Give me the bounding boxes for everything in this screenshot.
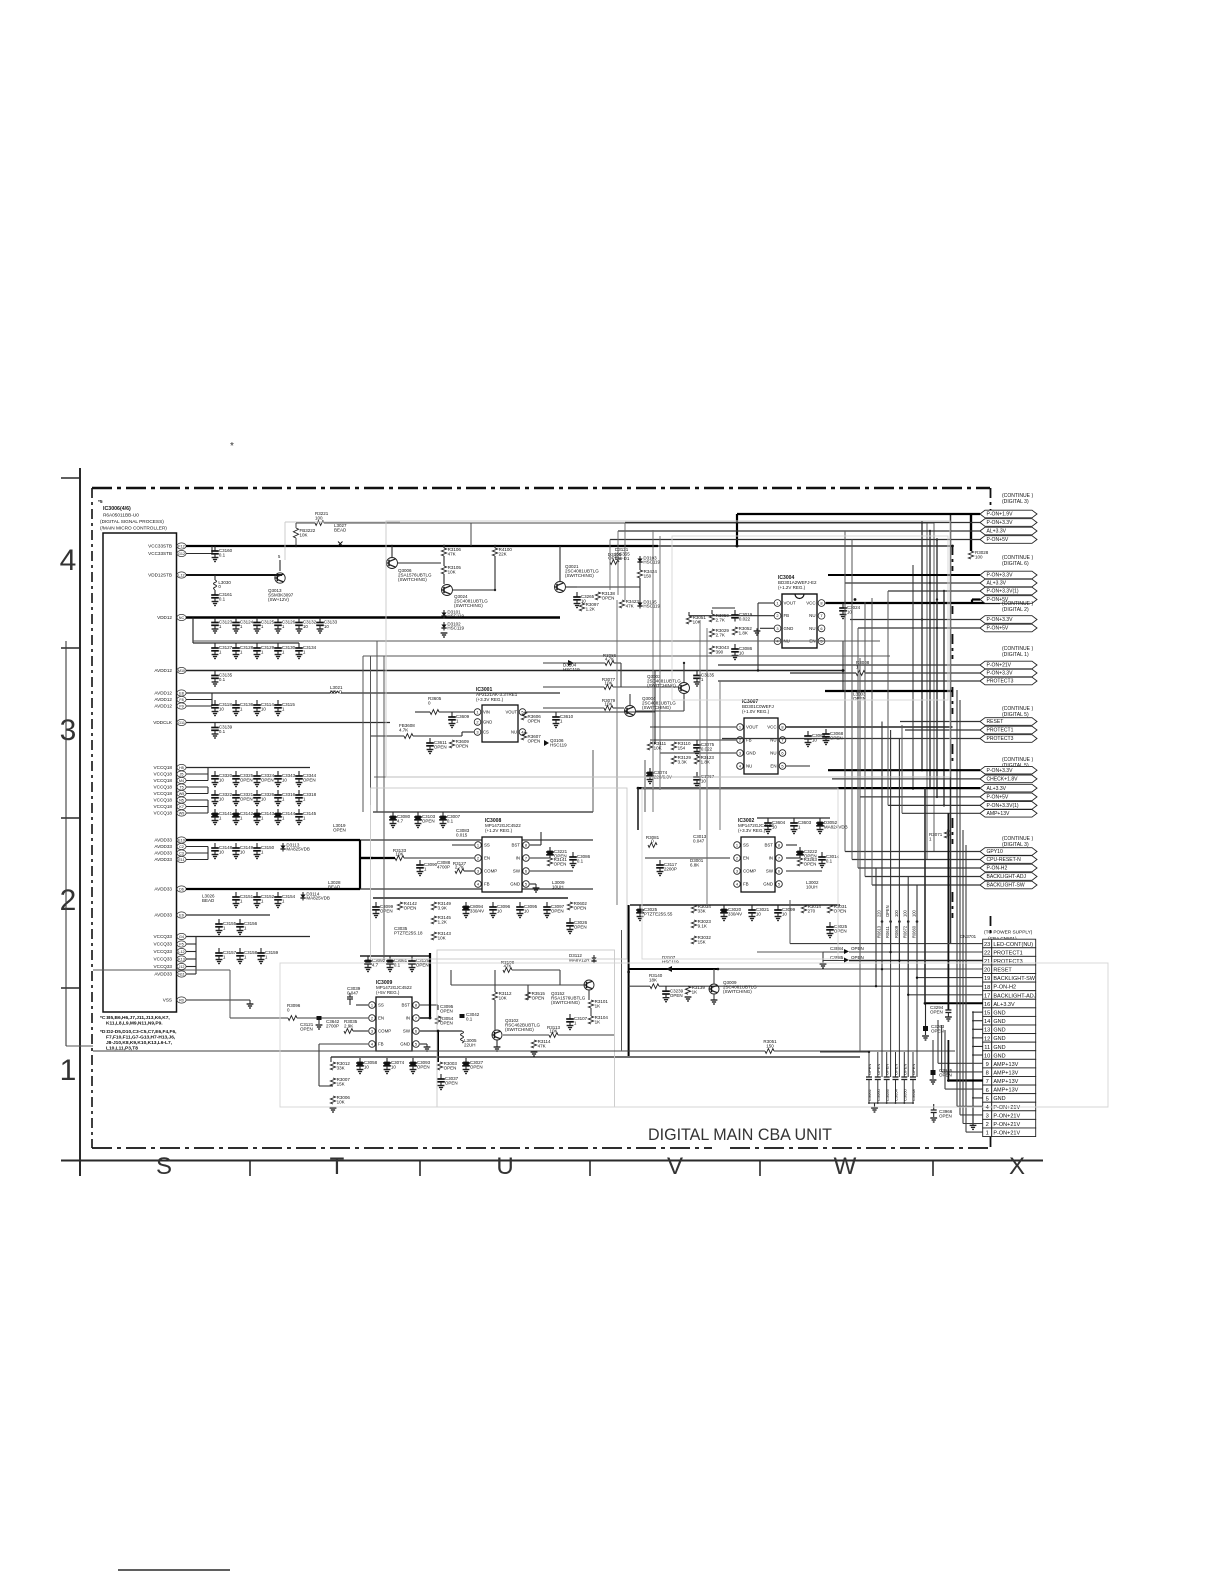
IC3009 bottom parts	[330, 1062, 335, 1070]
svg-text:9.1K: 9.1K	[698, 924, 707, 929]
svg-text:6: 6	[986, 1088, 989, 1094]
capacitor C3107b	[569, 1014, 571, 1019]
node junction dots on buses	[637, 787, 640, 790]
wire vertical resistor bank lines	[881, 921, 883, 1077]
svg-text:1: 1	[60, 1054, 77, 1087]
svg-text:OPEN: OPEN	[554, 862, 567, 867]
svg-text:P-ON+21V: P-ON+21V	[993, 1105, 1020, 1111]
connector CN3701 pin 23 LED-CONT(NU)	[983, 939, 992, 948]
svg-text:C3984: C3984	[830, 946, 844, 951]
svg-text:W5: W5	[179, 792, 185, 796]
svg-text:10: 10	[524, 909, 530, 914]
diode D3103	[639, 556, 641, 559]
footer line bottom left	[118, 1569, 230, 1571]
svg-text:VCCQ33: VCCQ33	[154, 957, 173, 962]
svg-text:K7: K7	[179, 805, 184, 809]
wire ic3009 out rail	[331, 1056, 860, 1058]
svg-text:OPEN: OPEN	[303, 778, 316, 783]
capacitor C3149	[235, 843, 237, 848]
svg-text:P-ON+3.3V: P-ON+3.3V	[987, 573, 1014, 579]
light box inner top	[672, 536, 948, 700]
svg-text:OPEN: OPEN	[670, 993, 683, 998]
svg-text:GND: GND	[993, 1019, 1005, 1025]
svg-text:OPEN: OPEN	[300, 1027, 313, 1032]
connector CN3701 pin 21 PROTECT3	[983, 956, 992, 965]
connector CN3701 pin 2 P-ON+21V	[983, 1119, 992, 1128]
svg-text:C3056: C3056	[885, 1088, 890, 1101]
svg-text:CHECK+1.8V: CHECK+1.8V	[987, 777, 1019, 783]
capacitor C3019	[734, 610, 736, 615]
svg-text:0.047: 0.047	[693, 839, 705, 844]
svg-text:0.1: 0.1	[219, 677, 226, 682]
svg-text:P-ON-H2: P-ON-H2	[987, 866, 1008, 872]
svg-text:GND: GND	[993, 1096, 1005, 1102]
wire ic3008 out rail	[373, 897, 568, 899]
capacitor C3324	[256, 771, 258, 776]
capacitor C3609	[451, 712, 453, 717]
resistor R3609	[449, 740, 454, 748]
svg-text:P-ON+3.3V: P-ON+3.3V	[987, 671, 1014, 677]
connector CN3701 pin 12 GND	[983, 1034, 992, 1043]
svg-text:13: 13	[984, 1028, 990, 1034]
svg-text:VIN: VIN	[483, 710, 490, 715]
resistor R3106	[441, 548, 446, 556]
svg-text:AVDD33: AVDD33	[154, 851, 172, 856]
wire VCC thick out	[826, 602, 1001, 604]
capacitor C3117	[659, 860, 661, 865]
svg-text:F12: F12	[178, 544, 184, 548]
svg-text:BST: BST	[511, 843, 520, 848]
svg-text:10: 10	[219, 778, 225, 783]
svg-text:7: 7	[986, 1079, 989, 1085]
svg-text:T: T	[330, 1153, 345, 1180]
svg-text:NU: NU	[770, 751, 776, 756]
resistor R3105	[441, 566, 446, 574]
svg-text:E9: E9	[179, 913, 184, 917]
svg-text:1K: 1K	[692, 990, 698, 995]
svg-text:C3050: C3050	[903, 1088, 908, 1101]
svg-text:OPEN: OPEN	[445, 1081, 458, 1086]
connector CN3701 pin 11 GND	[983, 1042, 992, 1051]
wire connector gnd rail	[972, 1012, 974, 1125]
svg-text:AVDD12: AVDD12	[154, 668, 172, 673]
svg-text:10UH: 10UH	[552, 885, 564, 890]
capacitor C3142	[235, 809, 237, 814]
svg-text:PROTECT3: PROTECT3	[993, 959, 1022, 965]
svg-text:T5: T5	[179, 785, 183, 789]
capacitor C3148	[214, 843, 216, 848]
wire pin18 P-ON-H2	[876, 985, 983, 987]
resistor FB3222	[293, 528, 298, 538]
wire BST	[420, 1004, 438, 1006]
svg-text:10: 10	[303, 624, 309, 629]
capacitor C3318	[298, 790, 300, 795]
svg-text:J5: J5	[180, 772, 184, 776]
svg-text:OPEN: OPEN	[434, 745, 447, 750]
svg-text:8: 8	[986, 1071, 989, 1077]
svg-text:E10: E10	[178, 838, 185, 842]
svg-text:100: 100	[894, 909, 899, 917]
svg-text:(/MAIN MICRO CONTROLLER): (/MAIN MICRO CONTROLLER)	[100, 526, 167, 532]
svg-text:OPEN: OPEN	[834, 909, 847, 914]
svg-text:J8-J10,K8,K9,K10,K13,L6-L7,: J8-J10,K8,K9,K10,K13,L6-L7,	[106, 1040, 173, 1046]
node P-ON+3.3V(1)	[980, 802, 1037, 810]
svg-text:20: 20	[984, 968, 990, 974]
svg-text:GND: GND	[993, 1053, 1005, 1059]
capacitor C3326	[256, 790, 258, 795]
light box IC3002	[642, 788, 838, 959]
svg-text:15K: 15K	[698, 940, 706, 945]
coil L3030	[214, 575, 216, 580]
resistor R3133	[395, 856, 404, 861]
connector CN3701 pin 22 PROTECT1	[983, 948, 992, 957]
svg-text:BST: BST	[401, 1003, 410, 1008]
svg-text:7: 7	[778, 855, 780, 860]
svg-text:(+1.2V REG.): (+1.2V REG.)	[485, 828, 513, 833]
light box top regulators	[386, 521, 950, 777]
capacitor C3610	[555, 712, 557, 717]
transistor Q3024	[442, 585, 453, 596]
node P-ON+3.3V	[980, 669, 1037, 677]
svg-text:VCCQ18: VCCQ18	[154, 772, 173, 777]
resistor R3050	[709, 614, 714, 622]
svg-text:F9: F9	[179, 704, 183, 708]
svg-text:AVDD12: AVDD12	[154, 704, 172, 709]
dash-dot border right segments	[990, 488, 992, 512]
svg-text:NU: NU	[809, 613, 815, 618]
wire ic3008 top rail	[373, 811, 593, 813]
svg-text:0.1: 0.1	[219, 729, 226, 734]
svg-text:OPEN: OPEN	[867, 1064, 872, 1075]
wire AL+3.3V net vertical thick	[924, 788, 926, 1003]
svg-text:270: 270	[808, 909, 816, 914]
transistor Q3004	[625, 706, 636, 717]
svg-text:BEAD: BEAD	[334, 528, 347, 533]
svg-text:OPEN: OPEN	[574, 925, 587, 930]
node GPY10	[980, 848, 1037, 856]
svg-text:OPEN: OPEN	[422, 819, 435, 824]
svg-text:P-ON+21V: P-ON+21V	[987, 663, 1012, 669]
svg-text:AMP+13V: AMP+13V	[993, 1088, 1018, 1094]
svg-text:AL+3.3V: AL+3.3V	[987, 529, 1007, 535]
wires IC3007	[650, 726, 736, 728]
resistor R4100	[492, 548, 497, 556]
svg-text:9: 9	[986, 1062, 989, 1068]
svg-text:P-ON+3.3V: P-ON+3.3V	[987, 768, 1014, 774]
svg-text:P-ON+21V: P-ON+21V	[993, 1131, 1020, 1137]
wire IN supply	[429, 953, 431, 1018]
svg-text:GND: GND	[993, 1010, 1005, 1016]
capacitor C3325	[235, 771, 237, 776]
wire BACKLIGHT-ADJ net vertical	[907, 877, 909, 995]
svg-text:OPEN: OPEN	[851, 955, 864, 960]
svg-text:154: 154	[678, 746, 686, 751]
svg-text:SW: SW	[403, 1029, 411, 1034]
svg-text:F7,F10,F11,G7-G13,H7-H13,J6,: F7,F10,F11,G7-G13,H7-H13,J6,	[106, 1035, 176, 1041]
wires ic3008 right	[530, 844, 541, 846]
coil L3005	[461, 1031, 464, 1043]
svg-text:220: 220	[877, 909, 882, 917]
svg-text:1.2K: 1.2K	[438, 920, 447, 925]
IC3008 top caps	[392, 812, 394, 817]
svg-text:VDD12STB: VDD12STB	[148, 573, 172, 578]
svg-text:D6: D6	[179, 887, 184, 891]
svg-text:C2: C2	[179, 845, 184, 849]
svg-text:AVDD33: AVDD33	[154, 838, 172, 843]
svg-text:5: 5	[986, 1096, 989, 1102]
svg-text:PROTECT3: PROTECT3	[987, 736, 1014, 742]
connector CN3701 pin 1 P-ON+21V	[983, 1128, 992, 1137]
capacitor C3134	[298, 643, 300, 648]
connector CN3701 pin 4 P-ON+21V	[983, 1102, 992, 1111]
svg-text:BACKLIGHT-ADJ: BACKLIGHT-ADJ	[993, 993, 1036, 999]
svg-text:R0: R0	[179, 998, 184, 1002]
svg-text:(DIGITAL 3): (DIGITAL 3)	[1002, 499, 1029, 505]
wire main vertical harness right	[950, 514, 952, 943]
svg-text:2.7K: 2.7K	[716, 618, 725, 623]
capacitor C3611	[429, 738, 431, 743]
svg-text:*C:B5,B6,H6,J7,J11,J13,K6,K7,: *C:B5,B6,H6,J7,J11,J13,K6,K7,	[100, 1015, 170, 1021]
transistor Q3006	[387, 558, 398, 569]
svg-text:10: 10	[364, 1065, 370, 1070]
svg-text:(SWITCHING): (SWITCHING)	[642, 705, 671, 710]
wire AVDD33 E9 row	[186, 914, 270, 916]
svg-text:HSC119: HSC119	[643, 604, 660, 609]
wire P-ON21V pins	[957, 1105, 983, 1107]
capacitor C3129	[256, 643, 258, 648]
svg-text:10: 10	[219, 707, 225, 712]
svg-text:OPEN: OPEN	[261, 778, 274, 783]
capacitor open bank	[912, 1052, 914, 1077]
svg-text:MA825VDB: MA825VDB	[286, 847, 310, 852]
resistor R3104	[588, 1016, 593, 1024]
transistor Q3013	[275, 573, 285, 583]
capacitor C3158	[239, 948, 241, 953]
svg-text:AVDD12: AVDD12	[154, 691, 172, 696]
wire net chains between flags	[912, 565, 914, 790]
svg-text:(+3.3V REG.): (+3.3V REG.)	[738, 828, 766, 833]
svg-text:VCCQ18: VCCQ18	[154, 798, 173, 803]
capacitor C3160	[214, 546, 216, 551]
svg-text:10: 10	[772, 825, 778, 830]
svg-text:(SWITCHING): (SWITCHING)	[551, 1000, 580, 1005]
wire flags group 5 taps	[828, 769, 980, 771]
node CHECK+1.8V	[980, 775, 1037, 783]
svg-text:G12: G12	[178, 552, 185, 556]
svg-text:(TO POWER SUPPLY): (TO POWER SUPPLY)	[984, 930, 1033, 936]
resistor R3108	[503, 968, 512, 973]
svg-text:OPEN: OPEN	[333, 828, 346, 833]
svg-text:P-ON-H2: P-ON-H2	[993, 985, 1016, 991]
wire pin16 AL+3.3V thick	[925, 1002, 983, 1004]
svg-text:2: 2	[371, 1015, 373, 1020]
svg-text:21: 21	[984, 959, 990, 965]
svg-text:23: 23	[984, 942, 990, 948]
svg-text:0.1: 0.1	[219, 597, 226, 602]
svg-text:0.1: 0.1	[219, 553, 226, 558]
svg-text:OPEN: OPEN	[470, 1065, 483, 1070]
capacitor C3114	[256, 700, 258, 705]
svg-text:GND: GND	[400, 1042, 410, 1047]
svg-text:1: 1	[477, 842, 479, 847]
svg-text:GND: GND	[993, 1028, 1005, 1034]
resistor R3097	[579, 603, 584, 611]
svg-text:P-ON+5V: P-ON+5V	[987, 795, 1009, 801]
wires IC3001	[526, 711, 556, 713]
svg-text:GND: GND	[483, 720, 492, 725]
resistor R3110	[671, 742, 676, 750]
wire flags group 6 taps	[845, 851, 980, 853]
svg-text:M4: M4	[179, 779, 184, 783]
svg-text:NC: NC	[179, 616, 185, 620]
svg-text:1: 1	[776, 600, 778, 605]
svg-text:(+1.2V REG.): (+1.2V REG.)	[778, 585, 806, 590]
resistor R3139	[685, 986, 690, 994]
svg-text:L12: L12	[178, 950, 184, 954]
svg-text:OPEN: OPEN	[876, 1064, 881, 1075]
wire long verticals harness	[859, 658, 861, 1051]
svg-text:VCCQ18: VCCQ18	[154, 811, 173, 816]
svg-text:GND: GND	[746, 751, 756, 756]
svg-text:(+3.3V REG.): (+3.3V REG.)	[476, 697, 504, 702]
svg-text:AVDD33: AVDD33	[154, 913, 172, 918]
node BACKLIGHT-ADJ	[980, 873, 1037, 881]
wire GND pin	[420, 1043, 427, 1045]
svg-text:10K: 10K	[549, 1028, 557, 1033]
svg-text:15: 15	[984, 1011, 990, 1017]
svg-text:BEAD: BEAD	[202, 898, 215, 903]
resistor R3114	[531, 1040, 536, 1048]
wires mid cluster	[543, 662, 605, 664]
svg-text:S: S	[156, 1153, 172, 1180]
svg-text:K11,L8,L9,M9,N11,N9,P9.: K11,L8,L9,M9,N11,N9,P9.	[106, 1021, 163, 1027]
svg-text:GPY10: GPY10	[987, 849, 1003, 855]
svg-text:2.7K: 2.7K	[455, 864, 464, 869]
svg-text:VCCQ18: VCCQ18	[154, 778, 173, 783]
capacitor C3133	[319, 618, 321, 623]
page frame left ruler	[79, 468, 81, 1176]
svg-text:*5: *5	[98, 499, 103, 505]
wire bottom row2 rail	[360, 955, 430, 957]
capacitor C3221	[549, 847, 551, 852]
svg-text:*: *	[230, 441, 234, 452]
svg-text:VCCQ33: VCCQ33	[154, 964, 173, 969]
svg-text:VCCQ18: VCCQ18	[154, 765, 173, 770]
svg-text:22UH: 22UH	[464, 1043, 476, 1048]
svg-text:10: 10	[219, 797, 225, 802]
connector CN3701 pin 14 GND	[983, 1016, 992, 1025]
wire ic3002 out rail	[630, 904, 840, 906]
capacitor C3155	[218, 919, 220, 924]
svg-text:MA82AVDB: MA82AVDB	[824, 825, 848, 830]
svg-text:22K: 22K	[499, 552, 507, 557]
svg-text:2: 2	[476, 719, 478, 724]
capacitor C3159	[260, 948, 262, 953]
svg-text:OPEN: OPEN	[532, 996, 545, 1001]
connector CN3701 pin 17 BACKLIGHT-ADJ	[983, 991, 992, 1000]
capacitor C3128	[235, 643, 237, 648]
resistor R3129	[671, 756, 676, 764]
svg-text:F8: F8	[179, 698, 183, 702]
svg-text:10K: 10K	[337, 1100, 345, 1105]
wire bus taps to flags	[737, 513, 980, 515]
svg-text:C3062: C3062	[867, 1088, 872, 1101]
connector CN3701 pin 9 AMP+13V	[983, 1059, 992, 1068]
wire left vertical rails	[65, 641, 67, 1046]
svg-text:(DIGITAL 3): (DIGITAL 3)	[1002, 842, 1029, 848]
svg-text:10: 10	[282, 778, 288, 783]
capacitor C3344	[298, 771, 300, 776]
svg-text:R0660: R0660	[912, 925, 917, 938]
svg-text:FB: FB	[784, 613, 790, 618]
wire P-ON-H2 net vertical	[875, 868, 877, 986]
svg-text:HSC119: HSC119	[447, 614, 464, 619]
capacitor C3024	[842, 603, 844, 608]
svg-text:1.2K: 1.2K	[586, 607, 595, 612]
svg-text:VOUT: VOUT	[505, 710, 517, 715]
node P-ON+5V	[980, 793, 1037, 801]
wire AMP+13V vertical thick	[947, 813, 949, 920]
svg-text:OPEN: OPEN	[528, 719, 541, 724]
svg-text:OPEN: OPEN	[456, 744, 469, 749]
svg-text:0.1: 0.1	[826, 859, 833, 864]
node junction dots	[683, 662, 685, 664]
resistor R3028	[968, 551, 973, 559]
wire VCC33STB bus	[186, 545, 658, 547]
svg-text:10: 10	[739, 651, 745, 656]
svg-text:AL+3.3V: AL+3.3V	[987, 786, 1007, 792]
svg-text:10K: 10K	[693, 620, 701, 625]
svg-text:10K: 10K	[499, 996, 507, 1001]
wire bottom long horizontals	[229, 970, 231, 1018]
svg-text:47K: 47K	[503, 963, 511, 968]
node PROTECT1	[980, 726, 1037, 734]
svg-text:4.7K: 4.7K	[605, 656, 614, 661]
connector CN3701 pin 19 BACKLIGHT-SW	[983, 974, 992, 983]
svg-text:10: 10	[261, 797, 267, 802]
svg-text:47K: 47K	[538, 1044, 546, 1049]
svg-text:(DIGITAL SIGNAL PROCESS): (DIGITAL SIGNAL PROCESS)	[100, 519, 164, 525]
svg-text:BACKLIGHT-SW: BACKLIGHT-SW	[993, 976, 1035, 982]
svg-text:COMP: COMP	[484, 869, 497, 874]
svg-text:0.1: 0.1	[577, 859, 584, 864]
IC3008 bottom caps	[375, 902, 377, 907]
svg-text:G4: G4	[179, 935, 184, 939]
svg-text:SS: SS	[484, 843, 490, 848]
svg-text:OPEN: OPEN	[885, 905, 890, 917]
svg-text:1: 1	[986, 1131, 989, 1137]
IC3008 bottom row2	[367, 956, 369, 961]
transistor Q3021	[555, 582, 566, 593]
svg-text:2: 2	[986, 1122, 989, 1128]
svg-text:0.022: 0.022	[739, 617, 751, 622]
svg-text:FB: FB	[743, 882, 749, 887]
svg-text:10K: 10K	[395, 851, 403, 856]
node P-ON+3.3V	[980, 616, 1037, 624]
svg-text:R0672: R0672	[903, 925, 908, 938]
svg-text:10K: 10K	[438, 936, 446, 941]
capacitor C3135	[214, 671, 216, 676]
resistor R3052	[732, 627, 737, 635]
svg-text:G11: G11	[178, 721, 185, 725]
svg-text:OPEN: OPEN	[240, 797, 253, 802]
svg-text:1: 1	[739, 724, 741, 729]
connector CN3701 pin 15 GND	[983, 1008, 992, 1017]
svg-text:MA825VDB: MA825VDB	[306, 896, 330, 901]
svg-text:7: 7	[820, 613, 822, 618]
node P-ON+5V	[980, 624, 1037, 632]
svg-text:2: 2	[776, 613, 778, 618]
